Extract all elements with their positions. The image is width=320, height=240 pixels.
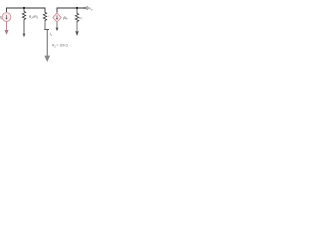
wire: diamond to ground (56, 22, 58, 27)
node B (junction dot on right rail) (76, 7, 78, 9)
resistor R1 (left, vertical) (22, 8, 25, 22)
dependent source B1 (diamond) (53, 13, 61, 22)
current source I1 (2, 13, 11, 22)
wire: right circuit top rail (57, 8, 84, 13)
wire: R2 down to test lead (44, 22, 49, 56)
wire: source to ground (6, 21, 8, 30)
resistor R3 (right, vertical) (75, 13, 78, 23)
node (terminal dot at rail end) (84, 7, 86, 9)
wire: R3 to ground (76, 23, 78, 31)
ground (arrow) below R1 (23, 34, 26, 38)
ground (arrow) below R3 (75, 31, 79, 36)
wire: left circuit top rail (7, 8, 46, 12)
wire: rail to R3 (76, 8, 78, 13)
node A (junction dot on left rail) (23, 7, 25, 9)
ground (large arrow) at bottom of lead (44, 56, 50, 62)
resistor R2 (middle, vertical) (43, 12, 46, 22)
background (0, 0, 95, 66)
ground (arrow) below I1 (4, 30, 8, 35)
wire: R1 to ground (23, 22, 25, 34)
ground (arrow) below B1 (56, 28, 59, 32)
terminal (open circle) (86, 7, 88, 9)
